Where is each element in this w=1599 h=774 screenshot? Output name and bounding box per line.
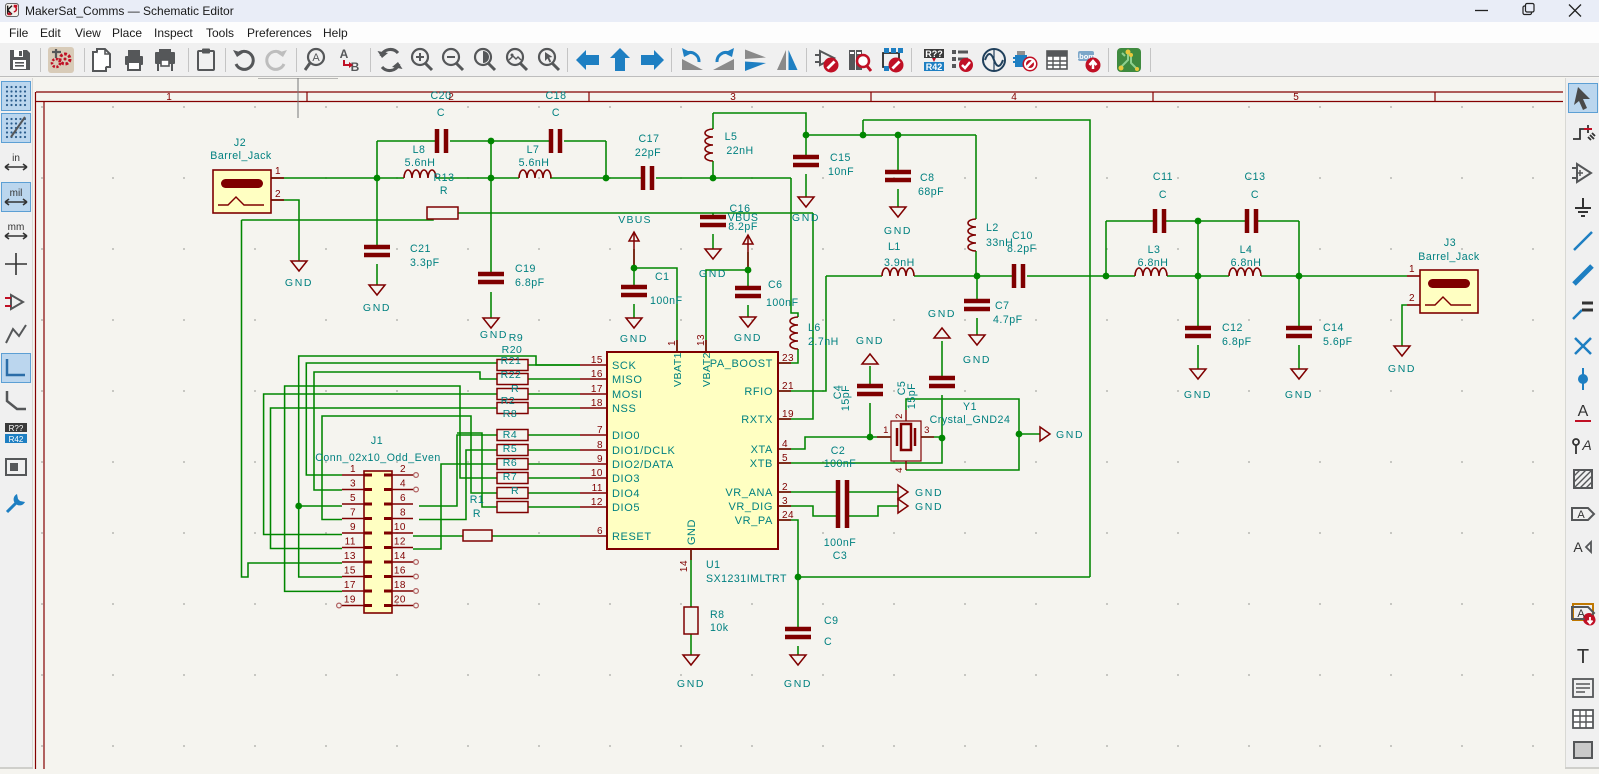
wire resistor outputs to IC [528,364,580,366]
ground C14 [1291,369,1307,379]
junction (806,135) [803,132,810,139]
icon shape [1569,736,1597,764]
svg-text:11: 11 [592,483,603,494]
svg-text:1: 1 [1409,264,1415,275]
icon assign footprints [1012,47,1038,73]
ground C19 [483,318,499,328]
junction (798,577) [795,574,802,581]
junction (491,141) [488,138,495,145]
wire weave pin5 pin15 SCK bypass [299,356,580,577]
resistor R13 [427,207,458,219]
icon erc wrench [2,489,30,517]
svg-text:C: C [1251,189,1259,201]
svg-text:5: 5 [1293,92,1299,103]
svg-text:R22: R22 [501,369,522,381]
ground C6 [740,317,756,327]
svg-text:GND: GND [856,335,884,347]
svg-text:22nH: 22nH [726,145,753,157]
wire VR_DIG row to C3 [778,506,836,516]
svg-text:SCK: SCK [612,360,636,372]
wire weave pin11/NSS [271,408,498,549]
svg-text:10k: 10k [710,622,729,634]
wire VR_PA down [778,520,798,577]
svg-text:C17: C17 [639,133,660,145]
svg-text:GND: GND [915,501,943,513]
icon hidden fields [2,453,30,481]
svg-text:RFIO: RFIO [744,386,773,398]
svg-text:2: 2 [400,464,406,475]
icon free angle [2,386,30,414]
icon hidden pins [2,288,30,316]
svg-text:6: 6 [597,526,603,537]
wire C7 hang [976,276,978,301]
wire main line y178 J2.1 to x791 [271,177,404,179]
svg-text:L4: L4 [1240,244,1253,256]
svg-text:R9: R9 [509,332,523,344]
svg-text:R5: R5 [503,443,517,455]
svg-text:7: 7 [350,508,356,519]
ground [1040,427,1050,441]
wire weave pin12/DIO2 [413,464,497,549]
svg-text:GND: GND [884,225,912,237]
wire x377 drop [376,141,378,178]
icon global label [1569,500,1597,528]
icon nav right [639,47,665,73]
wire weave pin8/DIO1 [419,450,497,520]
junction (870,437) [867,434,874,441]
svg-text:68pF: 68pF [918,186,944,198]
junction (1299,276) [1296,273,1303,280]
svg-text:C13: C13 [1245,171,1266,183]
svg-text:R42: R42 [926,62,943,72]
svg-text:10nF: 10nF [828,166,854,178]
junction (863,135) [860,132,867,139]
icon find [304,47,330,73]
ground C5 flag [934,328,950,338]
icon annotate [920,47,946,73]
svg-text:13: 13 [344,551,356,562]
junction (377,178) [374,175,381,182]
svg-text:1: 1 [275,166,281,177]
junction (1106,276) [1103,273,1110,280]
svg-text:R8: R8 [710,609,725,621]
svg-text:Barrel_Jack: Barrel_Jack [1418,251,1480,263]
ground C4 flag [862,354,878,364]
svg-text:R4: R4 [503,429,517,441]
wire y120 rail to x1090 [863,120,1090,577]
icon junction [1569,365,1597,393]
capacitor C15 [793,157,819,165]
svg-text:J2: J2 [234,137,246,149]
icon rule area [1569,465,1597,493]
wire weave pin1 [306,363,497,475]
ground C16 [705,249,721,259]
ground C1 [626,318,642,328]
svg-text:C21: C21 [410,243,431,255]
svg-text:L2: L2 [986,222,999,234]
icon wire tool [1569,227,1597,255]
svg-text:1: 1 [350,464,356,475]
svg-text:16: 16 [591,369,603,380]
capacitor C3 [838,504,847,528]
wire RFIO riser [778,276,826,391]
svg-text:9: 9 [597,454,603,465]
wire x1106 drop [1105,221,1107,276]
inductor L5 [705,129,713,161]
icon zoom in [409,47,435,73]
icon plot [152,47,178,73]
svg-text:mil: mil [10,188,23,199]
junction (898,135) [895,132,902,139]
icon erc [949,47,975,73]
svg-text:C3: C3 [833,550,848,562]
svg-text:13: 13 [696,334,707,346]
svg-text:Conn_02x10_Odd_Even: Conn_02x10_Odd_Even [315,452,441,464]
svg-text:A: A [1577,608,1585,620]
ground R8 [683,655,699,665]
svg-text:R: R [511,383,519,395]
svg-text:C1: C1 [655,271,670,283]
icon hier sheet [1569,599,1597,627]
svg-text:GND: GND [915,487,943,499]
svg-text:GND: GND [363,302,391,314]
right toolbar [1565,78,1599,769]
svg-text:18: 18 [394,580,406,591]
svg-text:15pF: 15pF [840,385,852,411]
svg-text:15: 15 [591,355,603,366]
svg-text:L8: L8 [413,144,426,156]
svg-text:R1: R1 [470,494,485,506]
icon annotate small [2,419,30,447]
wire C21 branch [376,178,378,247]
wire crystal pin2 loop to gnd [906,399,1040,434]
capacitor C8 [885,172,911,180]
svg-text:8: 8 [400,508,406,519]
junction (606,178) [603,175,610,182]
svg-text:GND: GND [1388,363,1416,375]
wire x1299 C14 branch [1298,221,1300,328]
svg-text:R2: R2 [501,395,515,407]
icon open pcb [1116,47,1142,73]
svg-text:C7: C7 [995,300,1010,312]
svg-text:22pF: 22pF [635,147,661,159]
icon edit symbol [814,47,840,73]
ground C8 [890,207,906,217]
wire y141 C20/C18 row [377,140,436,142]
capacitor C18 [551,129,560,153]
svg-text:R42: R42 [9,435,24,444]
svg-text:R??: R?? [925,49,943,59]
resistor R8 [684,607,698,634]
svg-text:R: R [440,185,448,197]
icon text box [1569,674,1597,702]
wire J3 pin2 to gnd [1402,305,1407,346]
svg-text:6.8pF: 6.8pF [1222,336,1252,348]
inductor L3 [1135,268,1167,276]
svg-text:VBAT2: VBAT2 [701,352,713,387]
icon paste [193,47,219,73]
svg-text:C: C [1159,189,1167,201]
icon highlight net [1569,120,1597,148]
icon units mm [2,217,30,245]
svg-text:Barrel_Jack: Barrel_Jack [210,150,272,162]
svg-text:GND: GND [784,678,812,690]
svg-text:L5: L5 [725,131,738,143]
left toolbar [0,78,33,769]
power VBUS [629,232,639,268]
svg-text:14: 14 [679,560,690,572]
svg-text:20: 20 [394,595,406,606]
svg-text:U1: U1 [706,559,721,571]
capacitor C16 [700,217,726,225]
wire J2 pin2 to gnd [271,200,299,261]
svg-text:19: 19 [782,409,794,420]
svg-text:R6: R6 [503,457,517,469]
svg-text:3: 3 [730,92,736,103]
svg-text:R: R [511,485,519,497]
icon new sheet [89,47,115,73]
svg-text:1: 1 [883,425,889,436]
svg-text:GND: GND [1056,429,1084,441]
inductor L7 [519,170,551,178]
icon nav up [607,47,633,73]
inductor L4 [1229,268,1261,276]
icon table [1569,705,1597,733]
wire x863 stub [862,120,864,135]
wire weave pin17/DIO3 [285,386,497,591]
svg-text:17: 17 [591,384,603,395]
wire C15 hang [805,135,807,157]
icon export bom [1076,47,1102,73]
schematic canvas [0,767,1599,769]
wire L5 vertical [712,113,714,129]
svg-text:VBAT1: VBAT1 [672,352,684,387]
svg-text:DIO2/DATA: DIO2/DATA [612,459,674,471]
wire x1198 C12 branch [1197,221,1199,328]
svg-text:C11: C11 [1153,171,1173,183]
svg-text:VR_PA: VR_PA [735,515,773,527]
capacitor C10 [1014,264,1023,288]
svg-text:GND: GND [480,329,508,341]
icon zoom out [440,47,466,73]
icon zoom fit [472,47,498,73]
svg-text:DIO1/DCLK: DIO1/DCLK [612,445,676,457]
ground C15 [798,197,814,207]
connector J1 Conn_02x10_Odd_Even [364,471,392,613]
svg-text:2: 2 [1409,293,1415,304]
wire L5 top loop [713,113,806,135]
icon hv lines [2,354,30,382]
svg-text:MISO: MISO [612,374,643,386]
svg-text:C10: C10 [1012,230,1033,242]
svg-text:R21: R21 [501,355,522,367]
icon library browser [846,47,872,73]
svg-text:RXTX: RXTX [741,414,773,426]
wire x491 C19 branch [490,141,492,274]
svg-text:GND: GND [1285,389,1313,401]
svg-text:SX1231IMLTRT: SX1231IMLTRT [706,573,787,585]
junction (1198,221) [1195,218,1202,225]
svg-text:GND: GND [963,354,991,366]
capacitor C6 [735,288,761,296]
svg-text:14: 14 [394,551,406,562]
svg-text:A: A [339,47,348,61]
svg-text:6: 6 [400,493,406,504]
svg-text:L3: L3 [1148,244,1161,256]
svg-text:C20: C20 [431,90,452,102]
icon bus entry [1569,297,1597,325]
junction (491,178) [488,175,495,182]
wire VR_ANA row [778,491,836,493]
svg-text:J3: J3 [1444,237,1456,249]
icon full cursor [2,250,30,278]
svg-text:23: 23 [782,353,794,364]
icon simulator [981,47,1007,73]
svg-text:C15: C15 [830,152,851,164]
icon hier label [1569,533,1597,561]
icon redo [263,47,289,73]
svg-text:GND: GND [686,519,698,545]
svg-text:5.6nH: 5.6nH [405,157,436,169]
svg-text:4.7pF: 4.7pF [993,314,1023,326]
icon refresh [377,47,403,73]
svg-text:5.6nH: 5.6nH [519,157,550,169]
svg-text:100nF: 100nF [766,297,799,309]
inductor L8 [404,170,436,178]
svg-text:R: R [473,508,481,520]
capacitor C2 [838,480,847,504]
svg-text:GND: GND [792,212,820,224]
capacitor C20 [437,129,446,153]
junction (298.7,506) [295,503,302,510]
svg-text:GND: GND [928,308,956,320]
ground J2.2 [291,261,307,271]
wire VBUS2 to VBAT2 [747,252,749,288]
wire weave hook R13net to J1 pin13 [242,220,343,577]
ground C9 [790,655,806,665]
svg-text:15: 15 [344,566,356,577]
wire y577 rail to x1090 [798,576,1090,578]
svg-text:5.6pF: 5.6pF [1323,336,1353,348]
wire weave pin6/DIO0 [419,435,497,506]
svg-text:12: 12 [591,497,603,508]
connector J2 Barrel_Jack [213,170,271,213]
icon print [121,47,147,73]
svg-text:4: 4 [894,467,905,473]
svg-text:100nF: 100nF [824,537,857,549]
svg-text:9: 9 [350,522,356,533]
svg-text:R8: R8 [503,408,517,420]
svg-text:C: C [437,107,445,119]
svg-text:2.7nH: 2.7nH [808,336,839,348]
svg-text:GND: GND [734,332,762,344]
svg-text:19: 19 [344,595,356,606]
wire VBUS net y213 from R13 [242,213,434,220]
svg-text:6.8nH: 6.8nH [1231,257,1262,269]
menu bar [0,22,1599,43]
IC U1 SX1231IMLTRT [607,352,778,549]
junction (634,268) [631,265,638,272]
svg-text:A: A [1581,437,1591,453]
svg-text:A: A [312,52,320,64]
inductor L6 [790,317,798,349]
svg-text:6.8pF: 6.8pF [515,277,545,289]
capacitor C1 [621,287,647,295]
svg-text:C18: C18 [546,90,567,102]
wire C4 hang [869,403,871,437]
svg-text:3: 3 [350,479,356,490]
icon netclass directive [1569,431,1597,459]
svg-text:5: 5 [782,453,788,464]
svg-text:DIO5: DIO5 [612,502,640,514]
svg-text:3.9nH: 3.9nH [884,257,915,269]
capacitor C19 [478,274,504,282]
svg-text:18: 18 [591,398,603,409]
wire x606 drop [605,141,607,178]
svg-text:PA_BOOST: PA_BOOST [710,358,773,370]
ground [898,499,908,513]
icon nav left [575,47,601,73]
wire RF line y276 [826,275,882,277]
icon text [1569,642,1597,670]
icon rotate cw [711,47,737,73]
capacitor C21 [364,247,390,255]
svg-text:21: 21 [782,381,794,392]
no-connect circles J1 [337,473,419,608]
capacitor C17 [643,166,652,190]
resistor R1 on reset row [463,530,492,541]
title bar [0,0,1599,22]
icon save [7,47,33,73]
wire x791 down PA_BOOST via L6 [791,178,798,317]
icon select arrow [1569,84,1597,112]
wire weave pin9/MOSI [264,394,497,535]
wire weave DIO5 feed [457,433,497,507]
svg-text:10: 10 [591,468,603,479]
svg-text:1: 1 [667,340,678,346]
power VBUS [743,235,753,270]
svg-text:DIO3: DIO3 [612,473,640,485]
svg-text:3: 3 [924,425,930,436]
svg-text:GND: GND [285,277,313,289]
ground C21 [369,285,385,295]
svg-text:VR_ANA: VR_ANA [725,487,773,499]
svg-text:1: 1 [166,92,172,103]
svg-text:C: C [824,636,832,648]
svg-text:4: 4 [400,479,406,490]
wire C8 hang [897,135,899,172]
svg-text:5: 5 [350,493,356,504]
wire weave pin7/DIO4 [322,416,497,520]
wire crystal pin4 loop [906,434,1019,470]
wire C11/C13 row y221 [1106,220,1155,222]
svg-text:C19: C19 [515,263,536,275]
wire L2 branch down [975,135,977,219]
capacitor C9 [785,629,811,637]
capacitor C13 [1247,209,1256,233]
icon units inches [2,148,30,176]
toolbar [0,43,1599,77]
svg-text:2: 2 [275,189,281,200]
svg-text:mm: mm [8,222,25,233]
capacitor C11 [1155,209,1164,233]
capacitor C14 [1286,328,1312,336]
svg-text:VBUS: VBUS [618,214,651,226]
svg-text:6.8nH: 6.8nH [1138,257,1169,269]
icon undo [231,47,257,73]
svg-text:12: 12 [394,537,406,548]
svg-text:3: 3 [782,496,788,507]
